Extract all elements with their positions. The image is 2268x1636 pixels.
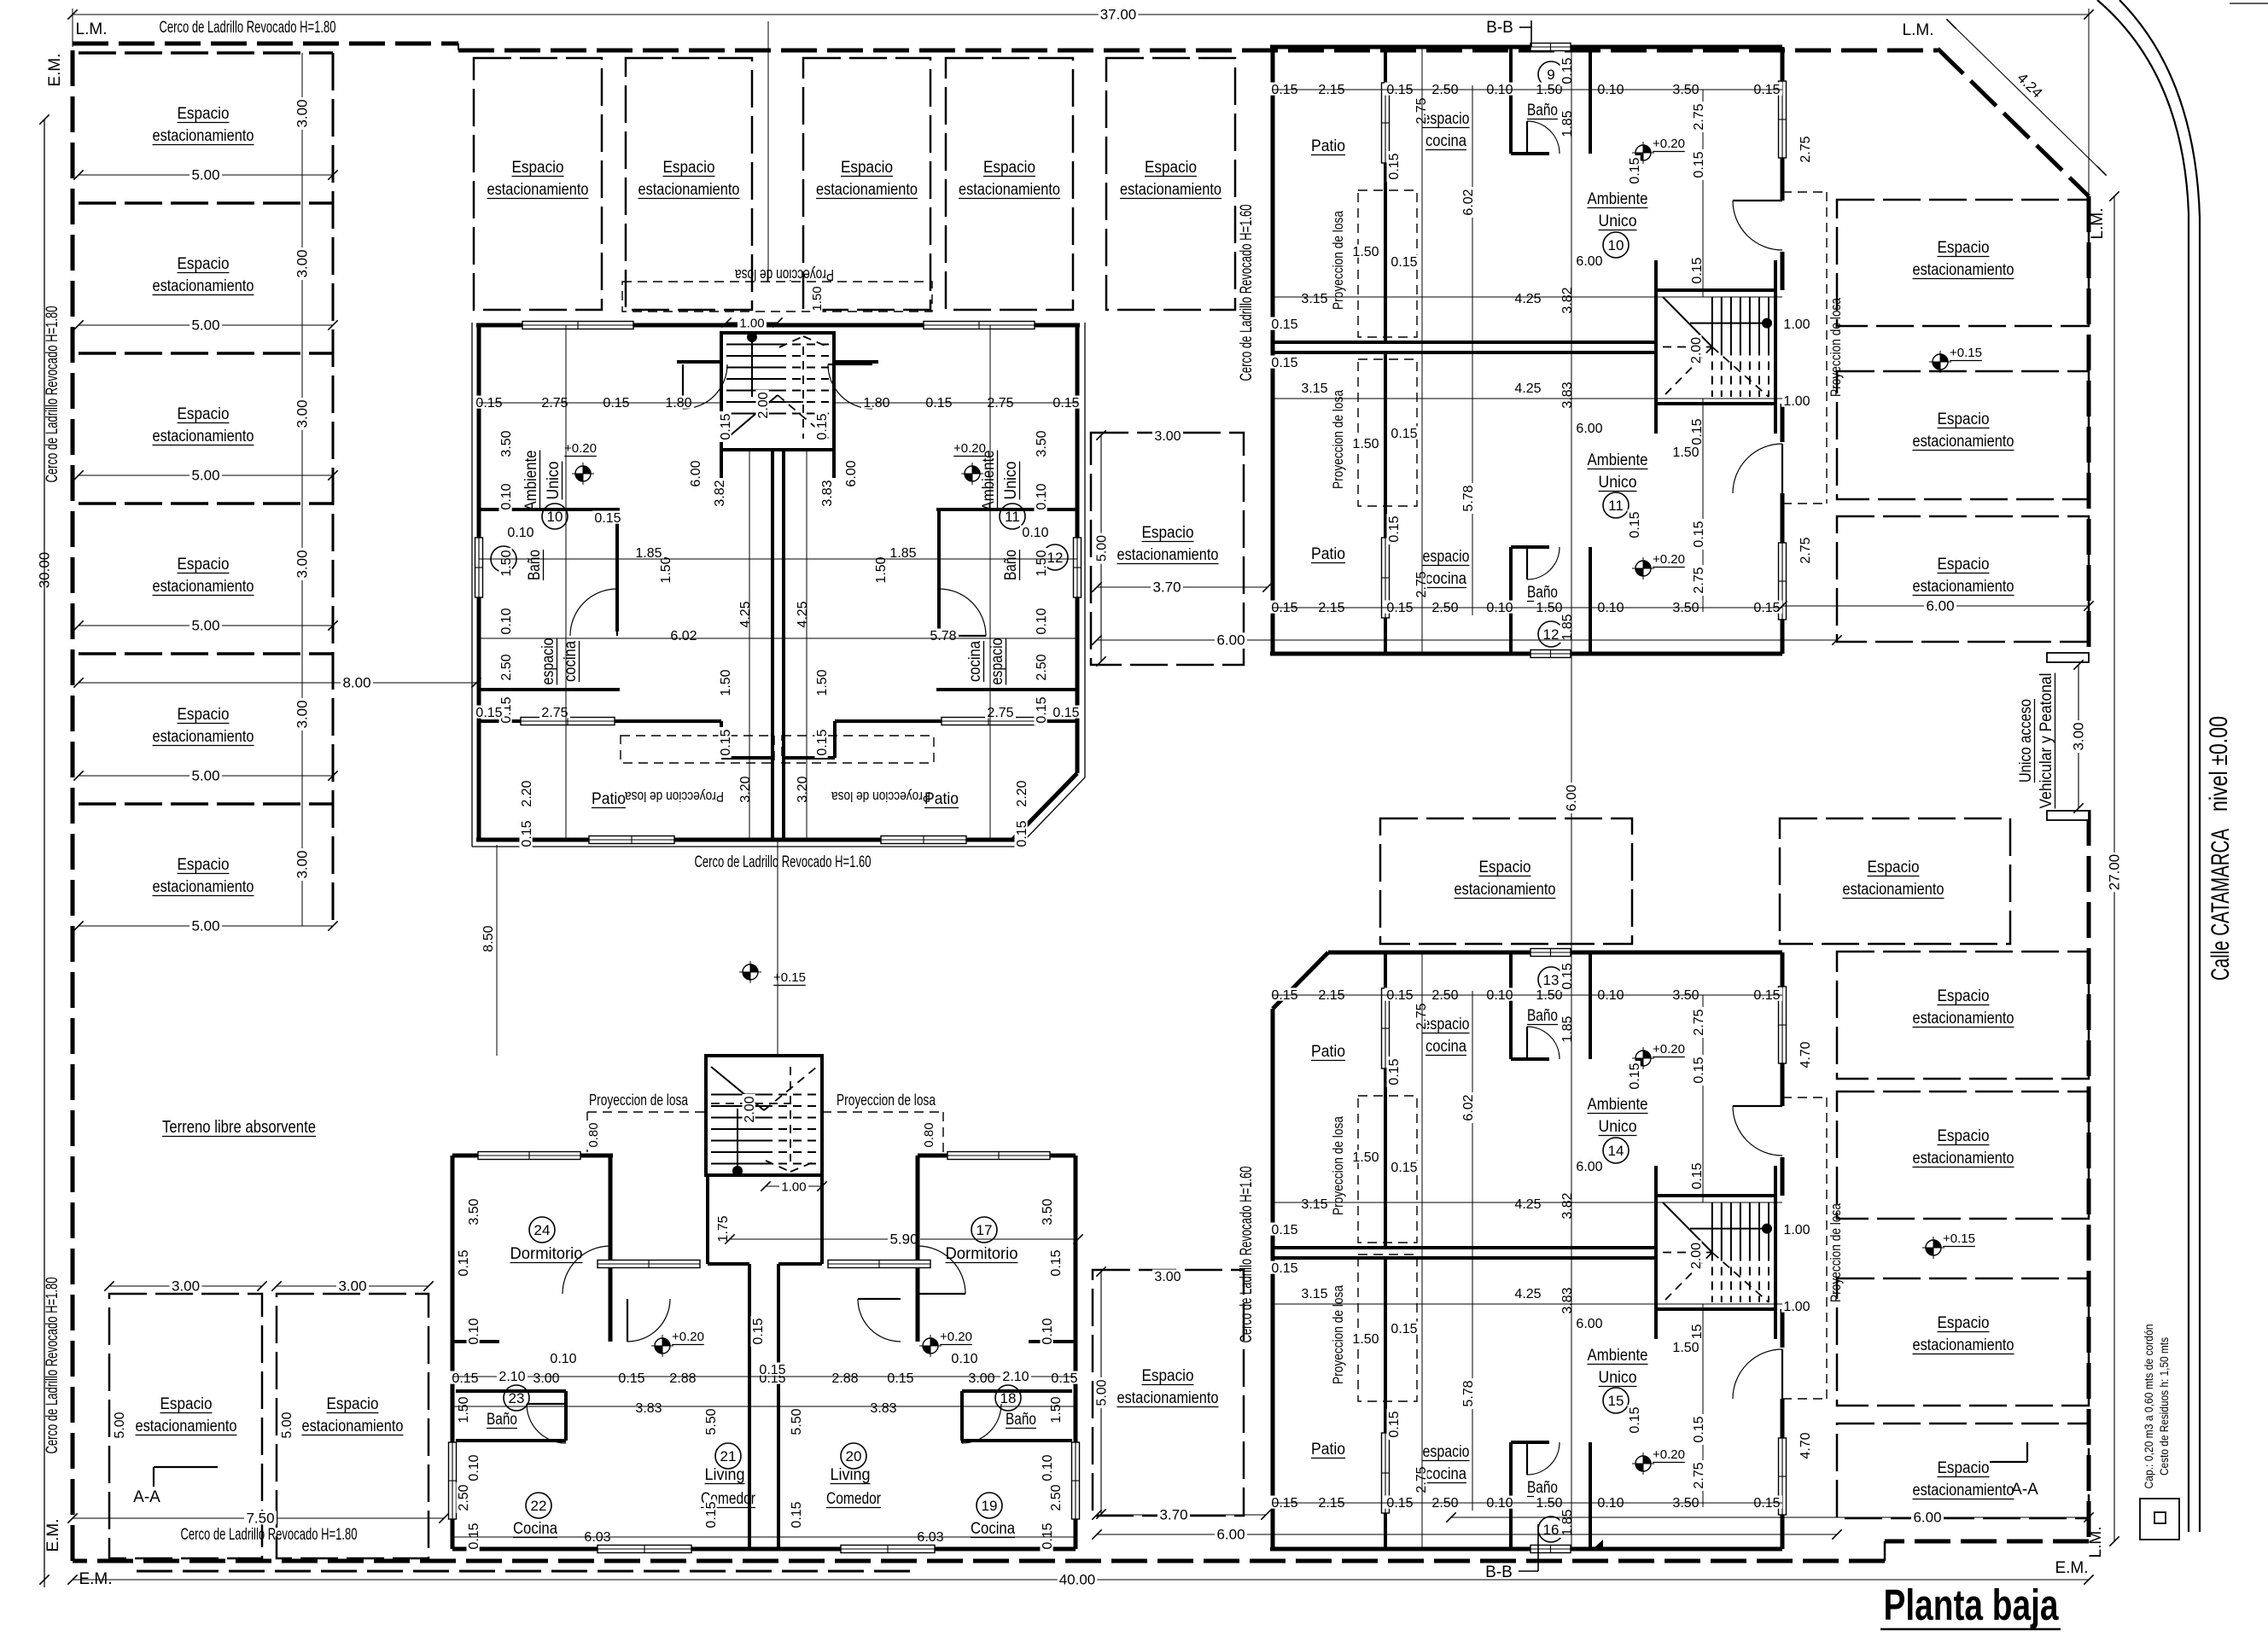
svg-text:Proyeccion de losa: Proyeccion de losa: [837, 1092, 936, 1109]
svg-text:Proyeccion de losa: Proyeccion de losa: [1330, 1116, 1346, 1215]
svg-text:0.10: 0.10: [467, 1318, 481, 1344]
svg-text:+0.20: +0.20: [1653, 552, 1685, 567]
svg-text:3.00: 3.00: [338, 1278, 366, 1295]
svg-text:Proyeccion de losa: Proyeccion de losa: [734, 266, 834, 283]
svg-text:estacionamiento: estacionamiento: [1913, 1010, 2014, 1028]
svg-text:2.50: 2.50: [1035, 654, 1049, 680]
svg-text:Espacio: Espacio: [1938, 1459, 1990, 1477]
svg-text:+0.20: +0.20: [1653, 137, 1685, 151]
svg-text:0.15: 0.15: [704, 1501, 719, 1528]
svg-text:Patio: Patio: [1311, 1441, 1345, 1458]
svg-text:0.10: 0.10: [499, 608, 514, 634]
svg-text:Cerco de Ladrillo Revocado H=1: Cerco de Ladrillo Revocado H=1.60: [1238, 205, 1256, 381]
svg-text:Espacio: Espacio: [1938, 987, 1990, 1005]
svg-text:2.00: 2.00: [1689, 337, 1704, 364]
svg-text:3.82: 3.82: [713, 480, 727, 506]
svg-text:15: 15: [1608, 1393, 1624, 1409]
svg-text:Espacio: Espacio: [1145, 159, 1197, 177]
svg-text:7.50: 7.50: [246, 1511, 274, 1527]
svg-text:3.70: 3.70: [1152, 579, 1181, 596]
svg-text:1.50: 1.50: [874, 556, 889, 583]
svg-text:0.10: 0.10: [467, 1454, 481, 1481]
svg-text:1.50: 1.50: [499, 550, 514, 576]
svg-text:Unico: Unico: [545, 462, 563, 500]
svg-text:4.70: 4.70: [1799, 1041, 1813, 1068]
svg-text:1.50: 1.50: [815, 669, 830, 696]
svg-text:1.85: 1.85: [635, 546, 662, 561]
svg-text:5.00: 5.00: [191, 918, 219, 934]
svg-text:cocina: cocina: [1426, 570, 1466, 588]
svg-text:0.10: 0.10: [1022, 526, 1048, 540]
svg-text:6.00: 6.00: [1913, 1510, 1941, 1526]
svg-text:3.83: 3.83: [1560, 1287, 1575, 1313]
svg-text:3.50: 3.50: [499, 430, 514, 457]
svg-text:Proyeccion de losa: Proyeccion de losa: [1828, 298, 1844, 397]
svg-text:espacio: espacio: [539, 638, 557, 685]
svg-text:1.75: 1.75: [716, 1215, 731, 1242]
svg-text:2.00: 2.00: [756, 392, 771, 418]
svg-text:Cerco de Ladrillo Revocado H=1: Cerco de Ladrillo Revocado H=1.80: [160, 19, 336, 37]
svg-text:Proyeccion de losa: Proyeccion de losa: [589, 1092, 689, 1109]
svg-text:0.15: 0.15: [1051, 1371, 1077, 1386]
svg-text:0.15: 0.15: [1387, 1411, 1402, 1437]
svg-text:0.15: 0.15: [719, 413, 733, 440]
svg-text:0.10: 0.10: [1035, 608, 1049, 634]
svg-text:E.M.: E.M.: [44, 1518, 62, 1552]
svg-text:0.15: 0.15: [1049, 1249, 1064, 1276]
svg-text:0.15: 0.15: [751, 1318, 766, 1344]
svg-text:0.15: 0.15: [1628, 1063, 1642, 1089]
svg-text:0.15: 0.15: [1690, 1162, 1705, 1189]
svg-text:3.50: 3.50: [1041, 1198, 1055, 1225]
svg-text:6.00: 6.00: [1926, 598, 1954, 614]
svg-text:Cocina: Cocina: [513, 1520, 557, 1538]
svg-text:24: 24: [534, 1222, 551, 1238]
svg-text:Espacio: Espacio: [1938, 1127, 1990, 1145]
svg-text:3.00: 3.00: [1154, 1270, 1181, 1284]
svg-text:0.15: 0.15: [1391, 1322, 1417, 1336]
svg-text:Living: Living: [831, 1466, 871, 1484]
svg-text:0.15: 0.15: [1387, 515, 1402, 542]
svg-text:1.85: 1.85: [1560, 614, 1575, 640]
svg-text:Cerco de Ladrillo Revocado H=1: Cerco de Ladrillo Revocado H=1.80: [44, 306, 61, 483]
svg-text:A-A: A-A: [133, 1488, 160, 1506]
svg-text:Espacio: Espacio: [983, 159, 1035, 177]
svg-text:estacionamiento: estacionamiento: [816, 181, 918, 199]
svg-text:Ambiente: Ambiente: [522, 451, 540, 511]
svg-text:Espacio: Espacio: [1938, 1314, 1990, 1332]
svg-text:estacionamiento: estacionamiento: [959, 181, 1060, 199]
svg-text:1.50: 1.50: [719, 669, 733, 696]
svg-text:Baño: Baño: [526, 550, 544, 580]
svg-text:3.50: 3.50: [1035, 430, 1049, 457]
svg-text:Unico: Unico: [1599, 1369, 1637, 1387]
svg-text:3.50: 3.50: [467, 1198, 481, 1225]
svg-text:0.15: 0.15: [1690, 257, 1705, 283]
svg-text:12: 12: [1047, 550, 1064, 566]
svg-text:0.15: 0.15: [1628, 1406, 1642, 1433]
svg-text:6.00: 6.00: [1216, 1527, 1245, 1543]
svg-text:5.00: 5.00: [1095, 1379, 1110, 1406]
svg-text:Cap.: 0,20 m3 a 0,60 mts de co: Cap.: 0,20 m3 a 0,60 mts de cordón: [2142, 1325, 2155, 1489]
svg-text:Patio: Patio: [924, 790, 959, 808]
svg-text:Ambiente: Ambiente: [1588, 1096, 1648, 1114]
svg-text:L.M.: L.M.: [2089, 208, 2107, 240]
svg-text:Espacio: Espacio: [327, 1395, 379, 1413]
svg-text:5.78: 5.78: [1461, 1380, 1476, 1406]
svg-text:Dormitorio: Dormitorio: [510, 1245, 583, 1263]
svg-text:3.83: 3.83: [820, 480, 835, 506]
svg-text:Cocina: Cocina: [971, 1520, 1015, 1538]
svg-text:0.80: 0.80: [922, 1122, 936, 1147]
svg-text:2.88: 2.88: [669, 1371, 696, 1386]
svg-text:6.00: 6.00: [1576, 254, 1602, 269]
svg-text:estacionamiento: estacionamiento: [153, 878, 254, 896]
svg-text:estacionamiento: estacionamiento: [153, 728, 254, 746]
svg-text:22: 22: [531, 1498, 547, 1514]
svg-text:estacionamiento: estacionamiento: [1913, 261, 2014, 279]
svg-text:17: 17: [977, 1222, 993, 1238]
svg-text:3.00: 3.00: [294, 99, 311, 127]
svg-text:nivel ±0.00: nivel ±0.00: [2205, 716, 2233, 812]
svg-text:2.75: 2.75: [1692, 567, 1706, 593]
svg-text:6.00: 6.00: [689, 460, 703, 486]
svg-text:L.M.: L.M.: [1903, 21, 1934, 39]
svg-text:0.10: 0.10: [499, 483, 514, 509]
svg-text:Ambiente: Ambiente: [1588, 451, 1648, 469]
svg-text:Cerco de Ladrillo Revocado H=1: Cerco de Ladrillo Revocado H=1.80: [44, 1278, 61, 1454]
svg-text:4.25: 4.25: [1514, 1197, 1541, 1212]
svg-text:estacionamiento: estacionamiento: [1913, 1482, 2014, 1499]
svg-text:Unico: Unico: [1599, 1118, 1637, 1136]
svg-text:2.50: 2.50: [1049, 1484, 1064, 1511]
svg-text:2.50: 2.50: [457, 1484, 471, 1511]
svg-text:Espacio: Espacio: [1938, 556, 1990, 573]
svg-text:0.10: 0.10: [951, 1352, 977, 1366]
svg-text:2.75: 2.75: [1692, 103, 1706, 130]
svg-text:1.50: 1.50: [1035, 550, 1049, 576]
svg-text:0.15: 0.15: [1692, 151, 1706, 178]
svg-text:Baño: Baño: [1527, 1007, 1558, 1025]
svg-text:0.15: 0.15: [1271, 317, 1297, 332]
svg-text:+0.20: +0.20: [953, 441, 986, 456]
svg-text:Espacio: Espacio: [178, 556, 230, 573]
svg-text:Calle CATAMARCA: Calle CATAMARCA: [2207, 829, 2235, 981]
svg-text:3.70: 3.70: [1159, 1507, 1187, 1523]
svg-text:4.25: 4.25: [1514, 292, 1541, 306]
svg-text:5.00: 5.00: [191, 468, 219, 484]
svg-text:B-B: B-B: [1485, 1563, 1513, 1581]
svg-text:3.82: 3.82: [1560, 1192, 1575, 1219]
svg-text:Terreno libre absorvente: Terreno libre absorvente: [162, 1118, 316, 1137]
svg-text:Espacio: Espacio: [1142, 1367, 1194, 1385]
svg-text:espacio: espacio: [1423, 1443, 1470, 1461]
svg-text:0.15: 0.15: [1391, 255, 1417, 270]
svg-text:6.02: 6.02: [670, 629, 697, 643]
svg-text:20: 20: [846, 1448, 862, 1464]
svg-text:Ambiente: Ambiente: [1588, 190, 1648, 208]
svg-text:Ambiente: Ambiente: [980, 451, 998, 511]
svg-text:cocina: cocina: [1426, 1465, 1466, 1483]
svg-text:1.00: 1.00: [1783, 1223, 1810, 1237]
svg-text:1.00: 1.00: [1783, 394, 1810, 409]
svg-text:cocina: cocina: [1426, 132, 1466, 150]
svg-text:5.00: 5.00: [191, 167, 219, 183]
svg-text:0.15: 0.15: [1387, 1058, 1402, 1085]
svg-text:1.50: 1.50: [1352, 437, 1379, 451]
svg-text:3.15: 3.15: [1301, 381, 1327, 396]
svg-text:Espacio: Espacio: [1868, 859, 1920, 876]
svg-text:3.00: 3.00: [533, 1371, 559, 1386]
svg-text:Proyeccion de losa: Proyeccion de losa: [1330, 390, 1346, 489]
svg-text:9: 9: [1547, 67, 1554, 83]
svg-text:5.78: 5.78: [1461, 485, 1476, 511]
svg-text:14: 14: [1608, 1143, 1624, 1159]
svg-text:0.10: 0.10: [1041, 1318, 1055, 1344]
svg-text:2.75: 2.75: [541, 706, 568, 720]
svg-text:0.15: 0.15: [1560, 963, 1575, 989]
svg-text:1.00: 1.00: [1783, 317, 1810, 332]
svg-text:0.15: 0.15: [1692, 521, 1706, 547]
svg-text:6.00: 6.00: [1576, 1317, 1602, 1331]
svg-text:estacionamiento: estacionamiento: [1913, 1150, 2014, 1167]
svg-text:+0.20: +0.20: [1653, 1447, 1685, 1462]
svg-text:0.15: 0.15: [1387, 153, 1402, 179]
svg-text:Living: Living: [705, 1466, 745, 1484]
svg-text:Espacio: Espacio: [1142, 524, 1194, 542]
svg-text:3.15: 3.15: [1301, 292, 1327, 306]
svg-text:Proyeccion de losa: Proyeccion de losa: [1330, 1285, 1346, 1384]
svg-text:0.15: 0.15: [1391, 1161, 1417, 1175]
svg-text:5.90: 5.90: [889, 1231, 918, 1248]
svg-text:espacio: espacio: [1423, 548, 1470, 566]
svg-text:0.15: 0.15: [1560, 57, 1575, 84]
svg-text:cocina: cocina: [562, 641, 580, 682]
svg-text:19: 19: [982, 1498, 998, 1514]
svg-text:1.00: 1.00: [739, 317, 764, 331]
svg-text:3.15: 3.15: [1301, 1287, 1327, 1301]
svg-text:0.10: 0.10: [507, 526, 533, 540]
svg-text:3.00: 3.00: [294, 700, 311, 728]
svg-text:0.15: 0.15: [1391, 427, 1417, 441]
svg-text:Espacio: Espacio: [178, 706, 230, 724]
svg-text:37.00: 37.00: [1100, 7, 1137, 23]
svg-text:Espacio: Espacio: [178, 105, 230, 123]
svg-text:1.50: 1.50: [457, 1396, 471, 1423]
svg-text:0.15: 0.15: [475, 706, 502, 720]
svg-text:3.15: 3.15: [1301, 1197, 1327, 1212]
svg-text:estacionamiento: estacionamiento: [136, 1418, 237, 1435]
svg-text:+0.20: +0.20: [1653, 1042, 1685, 1057]
svg-text:Baño: Baño: [1002, 550, 1020, 580]
svg-text:6.02: 6.02: [1461, 189, 1476, 215]
svg-text:4.25: 4.25: [1514, 1287, 1541, 1301]
svg-text:Proyeccion de losa: Proyeccion de losa: [831, 789, 930, 805]
svg-text:Espacio: Espacio: [1479, 859, 1531, 876]
svg-text:3.00: 3.00: [294, 399, 311, 428]
svg-text:5.78: 5.78: [930, 629, 956, 643]
svg-text:espacio: espacio: [1423, 1016, 1470, 1033]
svg-text:B-B: B-B: [1486, 19, 1513, 37]
svg-text:1.50: 1.50: [1049, 1396, 1064, 1423]
svg-text:Vehicular y Peatonal: Vehicular y Peatonal: [2038, 673, 2055, 809]
svg-text:2.75: 2.75: [1692, 1462, 1706, 1488]
svg-text:13: 13: [1543, 972, 1560, 988]
svg-text:cocina: cocina: [1426, 1038, 1466, 1056]
svg-text:+0.15: +0.15: [1950, 346, 1982, 360]
svg-text:1.00: 1.00: [781, 1180, 806, 1195]
svg-text:3.00: 3.00: [172, 1278, 200, 1295]
svg-text:+0.15: +0.15: [773, 970, 806, 985]
svg-text:0.15: 0.15: [815, 729, 830, 755]
svg-text:Unico: Unico: [1599, 474, 1637, 492]
svg-text:Patio: Patio: [1311, 1043, 1345, 1061]
svg-text:1.50: 1.50: [1352, 245, 1379, 259]
svg-text:Baño: Baño: [1527, 102, 1558, 119]
svg-text:0.10: 0.10: [1035, 483, 1049, 509]
svg-text:Espacio: Espacio: [160, 1395, 213, 1413]
svg-text:27.00: 27.00: [2107, 854, 2123, 891]
svg-text:3.00: 3.00: [1154, 429, 1181, 444]
svg-text:40.00: 40.00: [1059, 1572, 1096, 1588]
svg-text:Proyeccion de losa: Proyeccion de losa: [625, 789, 724, 805]
svg-text:3.00: 3.00: [294, 550, 311, 578]
svg-text:2.75: 2.75: [987, 706, 1013, 720]
svg-text:3.00: 3.00: [2071, 722, 2087, 750]
svg-text:Espacio: Espacio: [1938, 239, 1990, 257]
svg-text:4.25: 4.25: [1514, 381, 1541, 396]
svg-text:2.20: 2.20: [1015, 780, 1029, 806]
svg-text:Baño: Baño: [487, 1411, 517, 1429]
svg-text:0.15: 0.15: [1692, 1416, 1706, 1442]
svg-text:0.10: 0.10: [1041, 1454, 1055, 1481]
svg-text:+0.20: +0.20: [672, 1330, 704, 1344]
svg-text:3.83: 3.83: [1560, 381, 1575, 408]
svg-text:2.20: 2.20: [520, 780, 534, 806]
svg-text:0.15: 0.15: [594, 511, 621, 526]
svg-text:4.70: 4.70: [1799, 1432, 1813, 1458]
svg-text:8.00: 8.00: [342, 675, 370, 691]
svg-text:Cesto de Residuos h: 1,50 mts: Cesto de Residuos h: 1,50 mts: [2157, 1337, 2171, 1476]
svg-text:6.00: 6.00: [844, 460, 859, 486]
svg-text:1.00: 1.00: [1783, 1300, 1810, 1314]
svg-text:1.50: 1.50: [1672, 445, 1699, 460]
svg-text:0.15: 0.15: [1015, 820, 1029, 847]
svg-text:0.15: 0.15: [1628, 157, 1642, 183]
svg-text:6.00: 6.00: [1565, 784, 1579, 811]
svg-text:estacionamiento: estacionamiento: [153, 277, 254, 295]
svg-text:5.00: 5.00: [280, 1412, 294, 1438]
svg-text:0.15: 0.15: [1041, 1522, 1055, 1549]
svg-text:Unico acceso: Unico acceso: [2017, 699, 2035, 783]
svg-text:10: 10: [547, 509, 563, 525]
svg-text:Cerco de Ladrillo Revocado H=1: Cerco de Ladrillo Revocado H=1.60: [695, 853, 872, 871]
svg-text:5.50: 5.50: [704, 1408, 719, 1435]
svg-text:estacionamiento: estacionamiento: [1117, 546, 1219, 564]
svg-text:3.00: 3.00: [294, 249, 311, 277]
svg-text:0.15: 0.15: [618, 1371, 644, 1386]
svg-text:estacionamiento: estacionamiento: [1913, 578, 2014, 596]
svg-text:estacionamiento: estacionamiento: [1843, 881, 1944, 899]
svg-text:21: 21: [720, 1448, 737, 1464]
svg-text:1.85: 1.85: [1560, 1016, 1575, 1042]
svg-text:3.00: 3.00: [294, 850, 311, 878]
svg-text:A-A: A-A: [2011, 1481, 2038, 1499]
svg-text:Baño: Baño: [1527, 1479, 1558, 1497]
svg-text:espacio: espacio: [988, 638, 1006, 685]
svg-text:8.50: 8.50: [481, 925, 496, 952]
svg-text:estacionamiento: estacionamiento: [153, 428, 254, 445]
svg-text:Comedor: Comedor: [826, 1490, 882, 1508]
svg-text:3.82: 3.82: [1560, 287, 1575, 313]
svg-text:Proyeccion de losa: Proyeccion de losa: [1330, 211, 1346, 310]
svg-text:L.M.: L.M.: [76, 20, 108, 38]
svg-text:Espacio: Espacio: [178, 856, 230, 874]
svg-text:0.15: 0.15: [1052, 706, 1079, 720]
svg-text:+0.20: +0.20: [940, 1330, 972, 1344]
svg-text:6.00: 6.00: [1576, 422, 1602, 436]
svg-text:+0.15: +0.15: [1943, 1231, 1975, 1246]
svg-text:Dormitorio: Dormitorio: [946, 1245, 1018, 1263]
svg-text:5.00: 5.00: [191, 317, 219, 334]
svg-text:3.83: 3.83: [635, 1401, 662, 1416]
svg-text:Patio: Patio: [1311, 545, 1345, 563]
svg-text:6.02: 6.02: [1461, 1094, 1476, 1121]
svg-text:estacionamiento: estacionamiento: [1913, 433, 2014, 451]
svg-text:3.00: 3.00: [968, 1371, 994, 1386]
svg-text:11: 11: [1608, 498, 1624, 514]
svg-text:+0.20: +0.20: [564, 441, 597, 456]
svg-text:3.83: 3.83: [870, 1401, 896, 1416]
svg-text:0.10: 0.10: [550, 1352, 576, 1366]
svg-text:0.15: 0.15: [759, 1363, 785, 1377]
svg-text:2.75: 2.75: [1692, 1009, 1706, 1035]
svg-text:2.00: 2.00: [1689, 1243, 1704, 1269]
svg-text:0.15: 0.15: [1692, 1057, 1706, 1083]
svg-text:Cerco de Ladrillo Revocado H=1: Cerco de Ladrillo Revocado H=1.80: [181, 1526, 358, 1544]
svg-text:Espacio: Espacio: [178, 255, 230, 273]
svg-text:0.80: 0.80: [586, 1122, 601, 1147]
svg-text:Espacio: Espacio: [663, 159, 715, 177]
svg-text:0.15: 0.15: [719, 729, 733, 755]
svg-text:0.15: 0.15: [790, 1501, 804, 1528]
svg-text:1.85: 1.85: [889, 546, 916, 561]
svg-text:0.15: 0.15: [1271, 356, 1297, 370]
svg-text:Cerco de Ladrillo Revocado H=1: Cerco de Ladrillo Revocado H=1.60: [1238, 1167, 1256, 1343]
svg-text:5.00: 5.00: [191, 768, 219, 784]
svg-text:E.M.: E.M.: [46, 53, 64, 86]
svg-text:0.15: 0.15: [1628, 511, 1642, 538]
svg-text:0.15: 0.15: [457, 1249, 471, 1276]
svg-text:Planta baja: Planta baja: [1884, 1581, 2059, 1629]
svg-text:Patio: Patio: [1311, 137, 1345, 155]
svg-text:Baño: Baño: [1006, 1411, 1036, 1429]
svg-text:estacionamiento: estacionamiento: [1455, 881, 1556, 899]
svg-text:0.15: 0.15: [1271, 1261, 1297, 1276]
svg-text:Espacio: Espacio: [1938, 410, 1990, 428]
svg-text:estacionamiento: estacionamiento: [487, 181, 589, 199]
svg-text:estacionamiento: estacionamiento: [1120, 181, 1221, 199]
svg-text:2.10: 2.10: [1002, 1370, 1029, 1384]
svg-text:estacionamiento: estacionamiento: [1913, 1336, 2014, 1354]
svg-text:2.00: 2.00: [743, 1096, 757, 1122]
svg-text:3.20: 3.20: [738, 776, 753, 802]
svg-text:5.00: 5.00: [191, 618, 219, 634]
svg-text:0.15: 0.15: [1271, 1223, 1297, 1237]
svg-text:estacionamiento: estacionamiento: [153, 127, 254, 145]
svg-text:0.15: 0.15: [1690, 418, 1705, 445]
svg-text:18: 18: [1000, 1390, 1017, 1406]
